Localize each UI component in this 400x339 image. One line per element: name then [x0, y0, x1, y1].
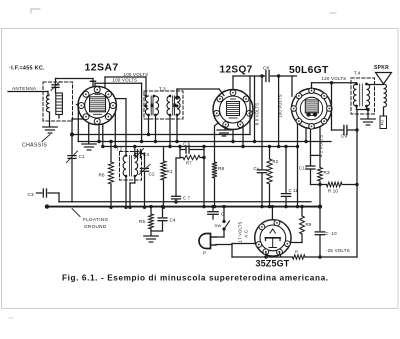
svg-text:P: P [203, 251, 206, 256]
T2 winding 2 [135, 156, 138, 177]
resistor R10 [320, 184, 327, 186]
capacitor C6 [179, 147, 181, 150]
wire plug top to switch [216, 236, 224, 238]
ground under 12SQ7 [217, 129, 231, 131]
wire speaker to T4 top [367, 84, 384, 86]
wire 12SQ7 pin drop a [232, 130, 234, 142]
fuse FU box [380, 116, 387, 129]
wire bus line A [72, 134, 250, 136]
wire plug bottom [216, 244, 232, 246]
wire antenna lead [8, 91, 48, 93]
resistor R4 heater line [232, 256, 293, 258]
wire bus to C10 [319, 207, 321, 231]
capacitor C8 [265, 71, 267, 82]
T2 core [129, 156, 131, 177]
scan artifact marks [31, 9, 40, 13]
wire T3 drop 4 [176, 115, 178, 142]
tube V4 internal plate [266, 237, 281, 239]
arrow chassis [42, 135, 50, 142]
svg-text:R5: R5 [139, 219, 146, 224]
svg-text:R2: R2 [273, 159, 279, 164]
svg-text:120 VOLTS: 120 VOLTS [322, 76, 347, 81]
speaker cone [376, 73, 392, 85]
T3 secondary winding left [167, 96, 170, 115]
T1 primary winding [46, 95, 49, 112]
tube V1 internal electrodes [90, 97, 106, 112]
wire 50L6 pin drop c [310, 130, 312, 156]
wire 12SA7 pin drop 2 [102, 124, 104, 146]
svg-text:C+: C+ [254, 166, 260, 171]
wire 12SQ7 loop left [249, 76, 251, 135]
svg-text:12SA7: 12SA7 [85, 62, 119, 74]
T4 primary winding [353, 84, 356, 106]
wire 12SA7 left loop [77, 104, 79, 106]
arrow floating ground [72, 209, 80, 217]
wire 50L6 pin drop b [297, 124, 299, 207]
plug prongs [211, 236, 217, 238]
resistor R6 [110, 142, 112, 163]
svg-text:R8: R8 [218, 166, 225, 171]
wire 12SA7 cathode stem [88, 124, 90, 143]
ground chassis [43, 126, 58, 128]
svg-text:T.2: T.2 [116, 147, 123, 152]
svg-text:S‌W: S‌W [215, 223, 222, 228]
T3 core [150, 96, 152, 115]
svg-text:CHASSIS: CHASSIS [22, 143, 47, 149]
wire bus line B [78, 141, 331, 143]
wire 50L6 pin drop a [305, 128, 307, 142]
svg-text:100 VOLTS: 100 VOLTS [113, 77, 138, 82]
transformer T1 antenna coil box [43, 82, 73, 121]
tube V3 50L6GT envelope [292, 89, 332, 129]
tube V4 filament [272, 239, 274, 248]
wire 50L6 grid return [278, 76, 280, 147]
wire 12SA7 plate to T3 [104, 77, 106, 88]
svg-text:C2: C2 [149, 172, 156, 177]
wire T4 primary bottom [356, 106, 358, 110]
T2 terminal dots [125, 154, 128, 157]
junction bus left [45, 204, 49, 208]
capacitor C12 [310, 155, 312, 165]
resistor R1 [163, 147, 165, 162]
svg-text:SPKR: SPKR [374, 65, 389, 71]
capacitor C10 [315, 231, 325, 233]
svg-text:50L6GT: 50L6GT [289, 65, 329, 76]
svg-text:C 7: C 7 [183, 196, 191, 201]
wire 12SA7 grid return [72, 118, 84, 120]
svg-text:C9: C9 [341, 134, 348, 139]
speaker voice coil [384, 84, 387, 107]
svg-text:100 VOLTS: 100 VOLTS [124, 72, 149, 77]
capacitor C7 [175, 158, 177, 195]
svg-text:C12: C12 [299, 166, 308, 171]
wire floating ground bus [46, 206, 321, 208]
tube V4 35Z5GT envelope [255, 220, 291, 256]
resistor R3 [318, 168, 323, 182]
svg-text:ANTENNA: ANTENNA [12, 86, 37, 91]
wire T2 top stub 2 [134, 147, 136, 156]
capacitor C4 electrolytic [162, 207, 164, 217]
tube V1 12SA7 envelope [78, 86, 116, 124]
svg-text:T.4: T.4 [354, 70, 361, 75]
wire grid-cap 12SA7 [56, 78, 94, 80]
svg-text:C 6: C 6 [183, 141, 191, 146]
svg-text:35Z5GT: 35Z5GT [256, 259, 290, 269]
svg-text:C1: C1 [79, 154, 86, 159]
wire AVC node down [203, 150, 205, 158]
svg-text:C4: C4 [170, 218, 177, 223]
wire 12SA7 osc grid to T2 [115, 98, 126, 100]
svg-text:Fig. 6.1. - Esempio di minusco: Fig. 6.1. - Esempio di minuscola superet… [62, 274, 329, 283]
T4 core [359, 84, 361, 106]
resistor R7 [179, 150, 181, 158]
svg-text:R6: R6 [99, 173, 106, 178]
wire 12SQ7 loop right [254, 76, 256, 142]
svg-text:8·0 VOLTS: 8·0 VOLTS [255, 103, 260, 125]
variable capacitor C2 [144, 153, 146, 167]
wire T3 drop 1 [148, 115, 150, 135]
svg-text:4·2 VOLTS: 4·2 VOLTS [319, 135, 324, 157]
transformer T3 IF box [144, 91, 183, 119]
resistor R2 [269, 147, 271, 160]
wire R3 node to bus [319, 185, 321, 207]
ground under R5 [144, 235, 159, 237]
wire 35Z5 plate to bus [271, 207, 273, 220]
svg-text:·I.F.=455 KC.: ·I.F.=455 KC. [9, 66, 45, 72]
wire T2 bottom stub 1 [125, 176, 127, 207]
wire 50L6 cathode drop [319, 127, 321, 155]
trimmer capacitor on T1 [55, 79, 57, 85]
transformer T2 oscillator box [120, 152, 142, 181]
resistor R9 [301, 207, 303, 216]
trimmer capacitor C4 [135, 153, 136, 155]
T3 trimmer capacitors [151, 104, 154, 108]
wire bus line C [103, 146, 298, 148]
wire 12SQ7 plate up [232, 76, 234, 90]
svg-text:R 10: R 10 [328, 189, 338, 194]
svg-text:C 11: C 11 [289, 188, 299, 193]
capacitor C9 [332, 129, 343, 131]
svg-text:C ·10: C ·10 [326, 231, 338, 236]
wire C8 to 50L6 grid [291, 76, 293, 96]
wire T3 drop 2 [155, 115, 157, 142]
T3 secondary winding right [177, 96, 180, 115]
wire T3 sec top to 12SQ7 grid [176, 89, 178, 98]
wire speaker coil bottom [383, 107, 385, 116]
svg-text:GROUND: GROUND [84, 224, 107, 229]
resistor R8 [215, 123, 219, 127]
capacitor C14 electrolytic [212, 207, 214, 211]
wire 12SA7 pin drop 1 [98, 125, 100, 142]
wire T1 bottom to ground [49, 112, 51, 126]
svg-text:A.C.: A.C. [244, 229, 249, 238]
T3 primary winding right [156, 96, 159, 115]
T3 core 2 [172, 96, 174, 115]
wire T3 drop 3 [169, 115, 171, 147]
capacitor C13 [261, 76, 263, 169]
svg-text:FU: FU [381, 120, 385, 126]
resistor R5 [150, 207, 152, 214]
wire T4 secondary bottom to ground [366, 106, 368, 110]
wire 35Z5 heater left [265, 253, 267, 258]
transformer T4 output box [351, 78, 375, 114]
wire B-minus line [59, 201, 311, 203]
svg-text:C3: C3 [28, 192, 35, 197]
T3 mid tap dot [145, 105, 148, 108]
tube V3 internal electrodes [305, 100, 318, 113]
tube V2 internal electrodes [227, 102, 240, 116]
tube V2 12SQ7 envelope [213, 90, 253, 130]
capacitor C3 [37, 192, 42, 194]
svg-text:R3: R3 [324, 170, 331, 175]
svg-text:R: R [295, 249, 298, 254]
T4 secondary winding [367, 84, 370, 106]
variable capacitor C1 [71, 135, 73, 155]
svg-text:12SQ7: 12SQ7 [220, 65, 253, 76]
svg-text:117 VOLTS: 117 VOLTS [238, 221, 243, 244]
wire 50L6 plate to T4 [311, 83, 313, 89]
wire 12SQ7 pin drop b [242, 126, 244, 147]
wire T2 bottom stub 2 [134, 176, 136, 183]
capacitor C11 [285, 147, 287, 193]
svg-text:C8: C8 [263, 66, 270, 71]
wire right rail [356, 110, 358, 258]
plug P body [199, 234, 210, 249]
svg-text:R1: R1 [167, 169, 174, 174]
wire 12SA7 screen line [94, 83, 96, 86]
wire switch to bus [223, 207, 225, 222]
T2 winding 1 [123, 156, 126, 177]
svg-text:R7: R7 [186, 161, 192, 166]
ground under 12SA7 [82, 143, 97, 145]
T3 terminal dots [145, 95, 148, 98]
svg-text:-25 VOLTS: -25 VOLTS [326, 248, 350, 253]
switch SW [222, 227, 225, 230]
svg-text:FLOATING: FLOATING [83, 217, 109, 222]
wire plate to grid coupling [233, 75, 265, 77]
svg-text:R9: R9 [306, 222, 312, 227]
T1 loop antenna ladder [56, 93, 63, 115]
T3 primary winding left [145, 96, 148, 115]
ground under T4 [361, 118, 376, 120]
wire 12SQ7 cathode ground stem [224, 127, 226, 130]
